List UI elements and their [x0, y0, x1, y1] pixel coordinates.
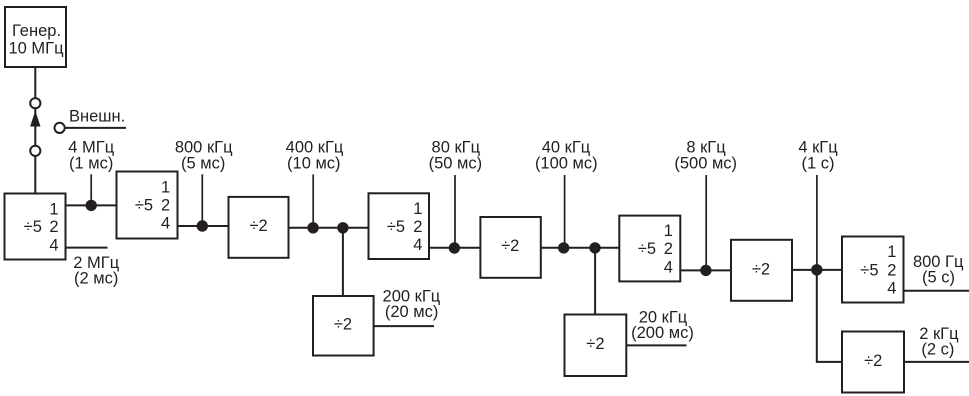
- label 400 кГц (10 мс): [286, 139, 344, 173]
- svg-text:2: 2: [161, 196, 170, 214]
- svg-text:2: 2: [413, 218, 422, 236]
- wire U11 output 2 кГц: [904, 361, 969, 363]
- svg-text:1: 1: [664, 222, 673, 240]
- junction node 80 кГц: [449, 242, 460, 253]
- wire junction to label 4 МГц: [90, 174, 92, 202]
- wire U7 output 20 кГц: [626, 344, 686, 346]
- divider U2 ÷5: [117, 172, 178, 239]
- wire U3 output to U4: [289, 227, 369, 229]
- label 4 кГц (1 с): [798, 139, 838, 173]
- divider U5 ÷2 branch 200 кГц: [313, 296, 374, 356]
- external input terminal: [55, 123, 65, 133]
- svg-text:4: 4: [49, 236, 58, 254]
- svg-text:÷2: ÷2: [586, 335, 604, 353]
- svg-text:÷5: ÷5: [387, 218, 405, 236]
- svg-text:÷2: ÷2: [334, 316, 352, 334]
- wire junction to label 8 кГц: [705, 175, 707, 266]
- svg-text:÷2: ÷2: [864, 352, 882, 370]
- label 800 Гц (5 с): [913, 253, 964, 287]
- divider U1 ÷5: [5, 194, 66, 260]
- svg-text:2: 2: [49, 218, 58, 236]
- wire U1 output 4 stub 2 МГц: [66, 247, 108, 249]
- label 40 кГц (100 мс): [535, 139, 598, 173]
- svg-text:(20 мс): (20 мс): [385, 303, 439, 321]
- wire junction to label 40 кГц: [564, 175, 566, 243]
- svg-text:2: 2: [887, 261, 896, 279]
- label 20 кГц (200 мс): [631, 308, 694, 342]
- divider U10 ÷5: [842, 237, 904, 303]
- svg-text:4: 4: [161, 215, 170, 233]
- junction node 8 кГц: [700, 265, 711, 276]
- wire U4 output 4 to U6: [429, 247, 481, 249]
- svg-text:÷2: ÷2: [501, 237, 519, 255]
- svg-text:(1 с): (1 с): [802, 154, 835, 172]
- terminal circle divider input: [30, 146, 40, 156]
- divider U4 ÷5: [369, 193, 430, 259]
- wire U1 output 1 to U2: [66, 204, 117, 206]
- wire U2 output 4 to U3: [177, 225, 229, 227]
- label 800 кГц (5 мс): [175, 139, 233, 173]
- svg-text:1: 1: [49, 200, 58, 218]
- generator G1 10 МГц: [5, 7, 66, 67]
- junction node 800 кГц: [197, 220, 208, 231]
- wire U6 output to U8: [541, 247, 620, 249]
- wire U9 output to U10: [792, 269, 843, 271]
- label 4 МГц (1 мс): [68, 139, 114, 173]
- wire branch down to U5: [342, 228, 344, 296]
- divider U3 ÷2: [229, 197, 289, 258]
- divider U9 ÷2: [731, 240, 792, 301]
- svg-text:(1 мс): (1 мс): [69, 154, 113, 172]
- wire junction to label 80 кГц: [454, 175, 456, 243]
- wire U10 output 4 800 Гц: [904, 290, 969, 292]
- junction node branch 20 кГц: [589, 242, 600, 253]
- svg-text:(100 мс): (100 мс): [535, 154, 598, 172]
- terminal circle generator output: [30, 98, 40, 108]
- svg-text:(500 мс): (500 мс): [674, 154, 737, 172]
- divider U11 ÷2 branch 2 кГц: [842, 332, 904, 393]
- svg-text:10 МГц: 10 МГц: [8, 39, 64, 57]
- svg-text:1: 1: [413, 200, 422, 218]
- svg-text:÷2: ÷2: [752, 260, 770, 278]
- wire branch down to U7: [594, 248, 596, 315]
- svg-text:Внешн.: Внешн.: [69, 108, 125, 126]
- svg-text:(10 мс): (10 мс): [287, 154, 341, 172]
- svg-text:÷2: ÷2: [249, 217, 267, 235]
- svg-text:4: 4: [887, 280, 896, 298]
- junction node branch 200 кГц: [337, 222, 348, 233]
- svg-text:(50 мс): (50 мс): [429, 154, 483, 172]
- wire junction to label 4 кГц: [816, 175, 818, 265]
- wire generator to divider U1: [34, 67, 36, 194]
- svg-text:4: 4: [664, 259, 673, 277]
- label 2 кГц (2 с): [919, 325, 959, 359]
- label 8 кГц (500 мс): [674, 139, 737, 173]
- svg-text:(2 с): (2 с): [921, 341, 954, 359]
- svg-text:÷5: ÷5: [24, 218, 42, 236]
- svg-text:(200 мс): (200 мс): [631, 324, 694, 342]
- svg-text:4: 4: [413, 236, 422, 254]
- svg-text:2: 2: [664, 240, 673, 258]
- svg-text:÷5: ÷5: [135, 196, 153, 214]
- divider U6 ÷2: [480, 217, 540, 278]
- junction node 400 кГц: [307, 222, 318, 233]
- svg-text:(2 мс): (2 мс): [74, 269, 118, 287]
- wire U5 output 200 кГц: [374, 325, 434, 327]
- svg-text:÷5: ÷5: [860, 261, 878, 279]
- junction node 40 кГц: [558, 242, 569, 253]
- svg-text:Генер.: Генер.: [12, 22, 61, 40]
- svg-text:1: 1: [161, 178, 170, 196]
- wire branch down to U11: [817, 270, 842, 362]
- svg-text:÷5: ÷5: [638, 240, 656, 258]
- svg-text:(5 с): (5 с): [922, 269, 955, 287]
- label 80 кГц (50 мс): [429, 139, 483, 173]
- divider U8 ÷5: [619, 216, 680, 282]
- junction node 4 кГц: [811, 264, 822, 275]
- label 2 МГц (2 мс): [73, 254, 119, 287]
- wire junction to label 400 кГц: [312, 174, 314, 223]
- arrow signal direction up: [30, 111, 40, 127]
- wire external input: [65, 127, 126, 129]
- junction node 4 МГц: [86, 200, 97, 211]
- divider U7 ÷2 branch 20 кГц: [565, 315, 627, 377]
- svg-text:1: 1: [887, 243, 896, 261]
- wire U8 output 4 to U9: [679, 269, 731, 271]
- label 200 кГц (20 мс): [383, 288, 441, 322]
- svg-text:(5 мс): (5 мс): [181, 154, 225, 172]
- wire junction to label 800 кГц: [201, 174, 203, 222]
